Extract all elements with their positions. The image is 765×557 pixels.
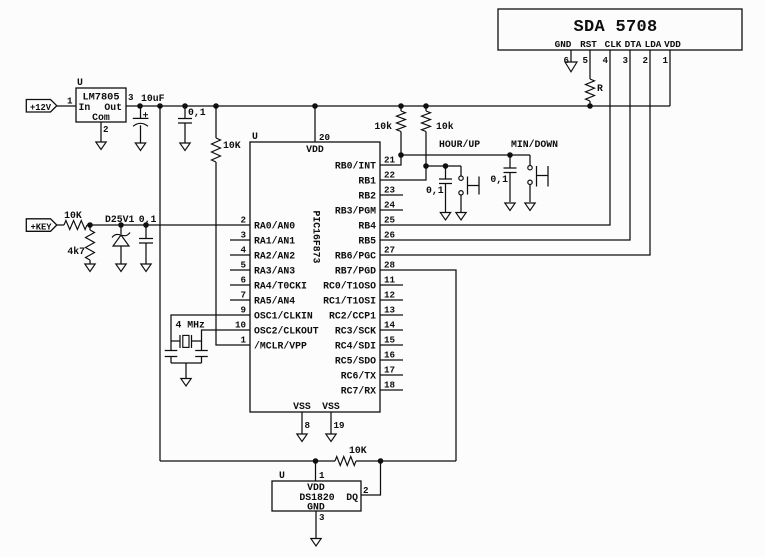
ground D1 xyxy=(116,264,126,272)
U3 pin 2 LDA wire to RB6 xyxy=(380,50,650,255)
U3 pin 4 CLK wire to RB4 xyxy=(380,50,610,225)
svg-text:4: 4 xyxy=(240,245,246,256)
svg-text:0,1: 0,1 xyxy=(188,107,206,118)
svg-text:+12V: +12V xyxy=(30,103,52,113)
svg-text:U: U xyxy=(279,470,285,481)
wire R5 to RB0 xyxy=(380,155,401,165)
pushbutton S2 MIN/DOWN xyxy=(528,155,548,202)
node junction C6 xyxy=(443,164,448,169)
svg-text:9: 9 xyxy=(240,305,246,316)
svg-text:RC6/TX: RC6/TX xyxy=(341,371,376,382)
crystal X1 4 MHz xyxy=(176,320,206,349)
svg-text:VSS: VSS xyxy=(322,401,340,412)
U2 pin 2 RA0/AN0 xyxy=(240,215,295,232)
wire R7 to DQ node xyxy=(356,460,456,462)
svg-text:0,1: 0,1 xyxy=(490,174,508,185)
svg-text:RB5: RB5 xyxy=(358,236,376,247)
U4 pin 2 DQ wire xyxy=(361,461,381,495)
node junction DQ xyxy=(378,459,383,464)
svg-text:18: 18 xyxy=(384,380,396,391)
svg-text:4 MHz: 4 MHz xyxy=(176,320,206,331)
svg-text:RC7/RX: RC7/RX xyxy=(341,386,376,397)
wire crystal caps common xyxy=(171,362,202,364)
node junction C2 xyxy=(183,104,188,109)
display U3 SDA 5708 body xyxy=(498,9,742,50)
capacitor C6 0,1 xyxy=(426,166,452,212)
U2 pin 8 VSS wire xyxy=(301,412,303,434)
svg-text:1: 1 xyxy=(240,335,246,346)
zener diode D1 D25V1 xyxy=(105,214,135,264)
svg-text:4k7: 4k7 xyxy=(67,246,85,257)
svg-text:RB3/PGM: RB3/PGM xyxy=(335,206,376,217)
svg-text:PIC16F873: PIC16F873 xyxy=(311,211,322,264)
svg-text:/MCLR/VPP: /MCLR/VPP xyxy=(254,341,307,352)
svg-text:22: 22 xyxy=(384,170,395,181)
U2 pin 25 RB4 xyxy=(358,215,395,232)
U2 pin 4 RA2/AN2 xyxy=(230,245,295,262)
wire left +5V rail down xyxy=(159,106,161,461)
ground U3 GND xyxy=(565,62,577,72)
svg-text:U: U xyxy=(77,77,83,88)
svg-text:8: 8 xyxy=(305,420,311,431)
svg-text:0,1: 0,1 xyxy=(426,185,444,196)
U2 pin 9 OSC1/CLKIN xyxy=(240,305,312,322)
ground U1 com xyxy=(96,142,106,150)
resistor R7 10K (1-wire pullup) xyxy=(335,445,367,466)
U2 pin 3 RA1/AN1 xyxy=(230,230,295,247)
node junction C7 xyxy=(508,153,513,158)
resistor R3 10K xyxy=(57,210,90,230)
regulator U1 LM7805 xyxy=(76,77,126,123)
U2 pin 14 RC3/SCK xyxy=(335,320,403,337)
svg-text:RA2/AN2: RA2/AN2 xyxy=(254,251,295,262)
U2 pin 28 RB7/PGD xyxy=(335,260,396,277)
svg-text:LDA: LDA xyxy=(645,39,662,50)
U2 pin 20 VDD wire xyxy=(314,106,316,142)
svg-text:6: 6 xyxy=(240,275,246,286)
svg-text:VDD: VDD xyxy=(664,39,681,50)
svg-text:RB2: RB2 xyxy=(358,191,376,202)
svg-text:RA5/AN4: RA5/AN4 xyxy=(254,296,295,307)
wire +12V to U1 pin 1 xyxy=(57,105,76,107)
node junction R5/button row xyxy=(399,153,404,158)
wire RB1 button row xyxy=(426,165,461,167)
svg-text:DQ: DQ xyxy=(346,492,358,503)
ground crystal xyxy=(181,379,191,387)
wire U1 out xyxy=(126,105,142,107)
capacitor C5 (OSC2 load) xyxy=(195,341,208,363)
ground U2 VSS pin 19 xyxy=(326,434,336,442)
svg-text:3: 3 xyxy=(240,230,246,241)
svg-text:26: 26 xyxy=(384,230,395,241)
wire U1 com down xyxy=(100,122,102,142)
U2 pin 7 RA5/AN4 xyxy=(230,290,295,307)
svg-text:5: 5 xyxy=(240,260,246,271)
svg-text:RC2/CCP1: RC2/CCP1 xyxy=(329,311,376,322)
ground R4 xyxy=(85,264,95,272)
U2 pin 6 RA4/T0CKI xyxy=(230,275,307,292)
wire +5V rail xyxy=(140,105,670,107)
svg-text:10k: 10k xyxy=(436,121,454,132)
wire R3 to U2 RA0 xyxy=(90,224,250,226)
svg-text:HOUR/UP: HOUR/UP xyxy=(439,139,480,150)
U2 pin 5 RA3/AN3 xyxy=(230,260,295,277)
sensor U4 DS1820 body xyxy=(272,470,361,513)
svg-text:R: R xyxy=(597,83,603,94)
U2 pin 12 RC1/T1OSI xyxy=(323,290,403,307)
svg-text:17: 17 xyxy=(384,365,395,376)
node junction D1 xyxy=(119,223,124,228)
U2 pin 17 RC6/TX xyxy=(341,365,403,382)
svg-text:19: 19 xyxy=(334,420,345,431)
svg-text:25: 25 xyxy=(384,215,396,226)
wire RB0 button row xyxy=(401,154,530,156)
svg-text:23: 23 xyxy=(384,185,396,196)
svg-text:27: 27 xyxy=(384,245,395,256)
ground C3 xyxy=(141,264,151,272)
node junction 10uF xyxy=(138,104,143,109)
svg-text:GND: GND xyxy=(555,39,572,50)
U2 pin 18 RC7/RX xyxy=(341,380,403,397)
svg-text:28: 28 xyxy=(384,260,396,271)
svg-text:RA3/AN3: RA3/AN3 xyxy=(254,266,295,277)
ground U2 VSS pin 8 xyxy=(297,434,307,442)
svg-text:10K: 10K xyxy=(223,140,241,151)
resistor R4 4k7 xyxy=(67,225,94,264)
power flag +KEY xyxy=(26,219,57,233)
svg-text:7: 7 xyxy=(240,290,246,301)
svg-text:10k: 10k xyxy=(374,121,392,132)
resistor R2 10K xyxy=(212,106,241,162)
svg-text:RB1: RB1 xyxy=(358,176,376,187)
node junction C3 xyxy=(144,223,149,228)
svg-text:10K: 10K xyxy=(349,445,367,456)
U2 pin 13 RC2/CCP1 xyxy=(329,305,403,322)
U3 pin 1 VDD wire to +5V xyxy=(669,50,671,106)
wire OSC2 to crystal xyxy=(192,330,251,341)
svg-text:RC4/SDI: RC4/SDI xyxy=(335,341,376,352)
wire OSC1 to crystal xyxy=(171,315,250,341)
svg-text:SDA 5708: SDA 5708 xyxy=(573,18,657,37)
U2 pin 11 RC0/T1OSO xyxy=(323,275,403,292)
U3 pin 6 GND wire xyxy=(570,50,572,62)
svg-text:10uF: 10uF xyxy=(141,93,165,104)
ground S1 xyxy=(456,213,466,221)
svg-text:RB7/PGD: RB7/PGD xyxy=(335,266,376,277)
U2 pin 16 RC5/SDO xyxy=(335,350,403,367)
svg-text:RC3/SCK: RC3/SCK xyxy=(335,326,376,337)
capacitor C3 0,1 xyxy=(139,214,157,264)
capacitor C1 10uF xyxy=(133,93,165,143)
node junction 10k pullup B xyxy=(424,104,429,109)
U3 pin 5 RST wire xyxy=(589,50,591,79)
capacitor C4 (OSC1 load) xyxy=(165,341,178,363)
svg-text:10: 10 xyxy=(235,320,246,331)
svg-text:RC5/SDO: RC5/SDO xyxy=(335,356,376,367)
U2 pin 19 VSS wire xyxy=(330,412,332,434)
U2 pin 10 OSC2/CLKOUT xyxy=(235,320,319,337)
svg-text:RST: RST xyxy=(580,39,597,50)
ground C1 xyxy=(135,143,145,151)
svg-text:RC0/T1OSO: RC0/T1OSO xyxy=(323,281,376,292)
U2 pin 26 RB5 xyxy=(358,230,395,247)
IC U2 PIC16F873 body xyxy=(250,131,380,412)
wire R2 to MCLR xyxy=(216,162,250,345)
wire bottom +5V to DS1820 xyxy=(160,460,335,462)
resistor R1 R (RST pullup) xyxy=(586,79,604,106)
U4 pin 3 GND wire xyxy=(315,511,317,539)
svg-text:21: 21 xyxy=(384,155,396,166)
svg-text:In: In xyxy=(79,102,91,113)
svg-text:2: 2 xyxy=(363,485,369,496)
svg-text:16: 16 xyxy=(384,350,395,361)
svg-text:1: 1 xyxy=(319,470,325,481)
ground C2 xyxy=(180,143,190,151)
U2 pin 22 RB1 xyxy=(358,170,395,187)
svg-text:14: 14 xyxy=(384,320,396,331)
resistor R6 10k (RB1 pullup) xyxy=(422,106,454,166)
svg-text:RA0/AN0: RA0/AN0 xyxy=(254,221,295,232)
svg-text:OSC1/CLKIN: OSC1/CLKIN xyxy=(254,311,313,322)
U2 pin 27 RB6/PGC xyxy=(335,245,395,262)
capacitor C7 0,1 xyxy=(490,155,516,202)
wire to ground xyxy=(185,363,187,379)
svg-text:+KEY: +KEY xyxy=(30,222,52,232)
svg-text:OSC2/CLKOUT: OSC2/CLKOUT xyxy=(254,326,319,337)
U3 pin 3 DTA wire to RB5 xyxy=(380,50,630,240)
U2 pin 21 RB0/INT xyxy=(335,155,396,172)
ground C6 xyxy=(440,213,450,221)
svg-text:12: 12 xyxy=(384,290,395,301)
svg-text:5: 5 xyxy=(582,55,588,66)
svg-text:3: 3 xyxy=(128,92,134,103)
power flag +12V xyxy=(26,100,57,114)
ground U4 GND xyxy=(311,539,321,547)
U2 pin 15 RC4/SDI xyxy=(335,335,403,352)
svg-text:3: 3 xyxy=(319,512,325,523)
ground C7 xyxy=(505,203,515,211)
U2 pin 1 /MCLR/VPP xyxy=(240,335,307,352)
svg-text:GND: GND xyxy=(307,502,325,513)
svg-text:20: 20 xyxy=(319,132,330,143)
svg-text:RC1/T1OSI: RC1/T1OSI xyxy=(323,296,376,307)
node junction R6/button row xyxy=(424,164,429,169)
U4 pin 1 VDD wire xyxy=(315,461,317,481)
svg-text:1: 1 xyxy=(67,95,73,106)
svg-text:VSS: VSS xyxy=(293,401,311,412)
node junction U2 VDD xyxy=(313,104,318,109)
svg-text:RA4/T0CKI: RA4/T0CKI xyxy=(254,281,307,292)
svg-text:4: 4 xyxy=(602,55,608,66)
svg-text:RA1/AN1: RA1/AN1 xyxy=(254,236,295,247)
svg-text:10K: 10K xyxy=(64,210,82,221)
svg-text:CLK: CLK xyxy=(605,39,622,50)
ground S2 xyxy=(525,203,535,211)
svg-text:Com: Com xyxy=(92,112,110,123)
svg-text:U: U xyxy=(252,131,258,142)
node junction 10k pullup A xyxy=(399,104,404,109)
capacitor C2 0,1 xyxy=(178,106,206,143)
svg-text:11: 11 xyxy=(384,275,396,286)
svg-text:3: 3 xyxy=(622,55,628,66)
node junction R-MCLR xyxy=(214,104,219,109)
svg-text:15: 15 xyxy=(384,335,396,346)
svg-text:VDD: VDD xyxy=(306,144,324,155)
svg-text:2: 2 xyxy=(642,55,648,66)
svg-text:RB6/PGC: RB6/PGC xyxy=(335,251,376,262)
wire R6 to RB1 xyxy=(380,166,426,180)
node junction DS1820 VDD xyxy=(313,459,318,464)
pushbutton S1 HOUR/UP xyxy=(459,166,479,212)
U2 pin 23 RB2 xyxy=(358,185,403,202)
wire RB7 to DQ xyxy=(380,270,456,461)
svg-text:RB4: RB4 xyxy=(358,221,376,232)
node junction R-RST xyxy=(588,104,593,109)
svg-text:RB0/INT: RB0/INT xyxy=(335,161,376,172)
svg-text:2: 2 xyxy=(103,124,109,135)
resistor R5 10k (RB0 pullup) xyxy=(374,106,405,155)
svg-text:1: 1 xyxy=(662,55,668,66)
node junction +KEY divider xyxy=(88,223,93,228)
svg-text:MIN/DOWN: MIN/DOWN xyxy=(511,139,558,150)
svg-text:24: 24 xyxy=(384,200,396,211)
node junction left rail xyxy=(158,104,163,109)
svg-text:DTA: DTA xyxy=(625,39,642,50)
svg-text:13: 13 xyxy=(384,305,396,316)
svg-text:2: 2 xyxy=(240,215,246,226)
U2 pin 24 RB3/PGM xyxy=(335,200,403,217)
